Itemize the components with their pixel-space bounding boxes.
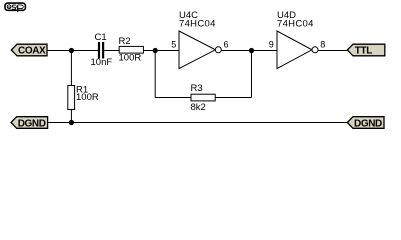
svg-text:74HC04: 74HC04 <box>179 19 216 30</box>
svg-text:8: 8 <box>320 40 325 50</box>
wire R2 to node B <box>143 50 155 52</box>
port TTL <box>347 44 385 57</box>
capacitor C1 <box>98 42 104 59</box>
svg-text:74HC04: 74HC04 <box>277 19 314 30</box>
junction node B <box>153 48 158 53</box>
wire node C to U4D input <box>252 50 278 52</box>
port DGND right <box>347 117 384 130</box>
wire node A to C1 <box>71 50 98 52</box>
port COAX <box>11 44 47 57</box>
wire U4D pin 8 to TTL port <box>318 50 348 52</box>
junction node A <box>69 48 74 53</box>
feedback wire node B to R3 <box>155 97 191 99</box>
svg-text:R3: R3 <box>191 83 203 94</box>
op-amp U4C (74HC04 inverter) <box>179 31 221 69</box>
wire R1 to ground rail <box>70 110 72 123</box>
feedback wire R3 to node C <box>215 97 251 99</box>
junction ground node <box>69 120 74 125</box>
svg-text:C1: C1 <box>95 32 107 43</box>
port DGND left <box>11 117 48 130</box>
svg-text:10nF: 10nF <box>91 57 113 68</box>
wire C1 to R2 <box>104 50 119 52</box>
wire U4C pin 6 to node C <box>221 50 251 52</box>
wire COAX to node A <box>47 50 71 52</box>
wire node C down to feedback <box>251 51 253 98</box>
svg-text:6: 6 <box>224 40 229 50</box>
resistor R1 <box>68 86 75 110</box>
svg-text:9: 9 <box>269 40 274 50</box>
resistor R2 <box>119 46 143 53</box>
svg-text:COAX: COAX <box>18 46 46 57</box>
junction node C <box>249 48 254 53</box>
svg-text:DGND: DGND <box>18 118 46 129</box>
op-amp U4D (74HC04 inverter) <box>277 31 318 69</box>
wire node B down to feedback <box>154 51 156 98</box>
svg-text:100R: 100R <box>119 53 142 64</box>
wire node A down to R1 <box>70 51 72 86</box>
wire node B to U4C input <box>155 50 179 52</box>
svg-text:TTL: TTL <box>355 46 372 57</box>
svg-text:100R: 100R <box>76 92 99 103</box>
resistor R3 <box>191 94 215 101</box>
ESP logo <box>5 3 25 12</box>
svg-text:5: 5 <box>171 40 176 50</box>
svg-text:8k2: 8k2 <box>191 102 206 113</box>
svg-text:DGND: DGND <box>354 118 382 129</box>
svg-text:R2: R2 <box>119 36 131 47</box>
ground rail DGND <box>48 122 348 124</box>
